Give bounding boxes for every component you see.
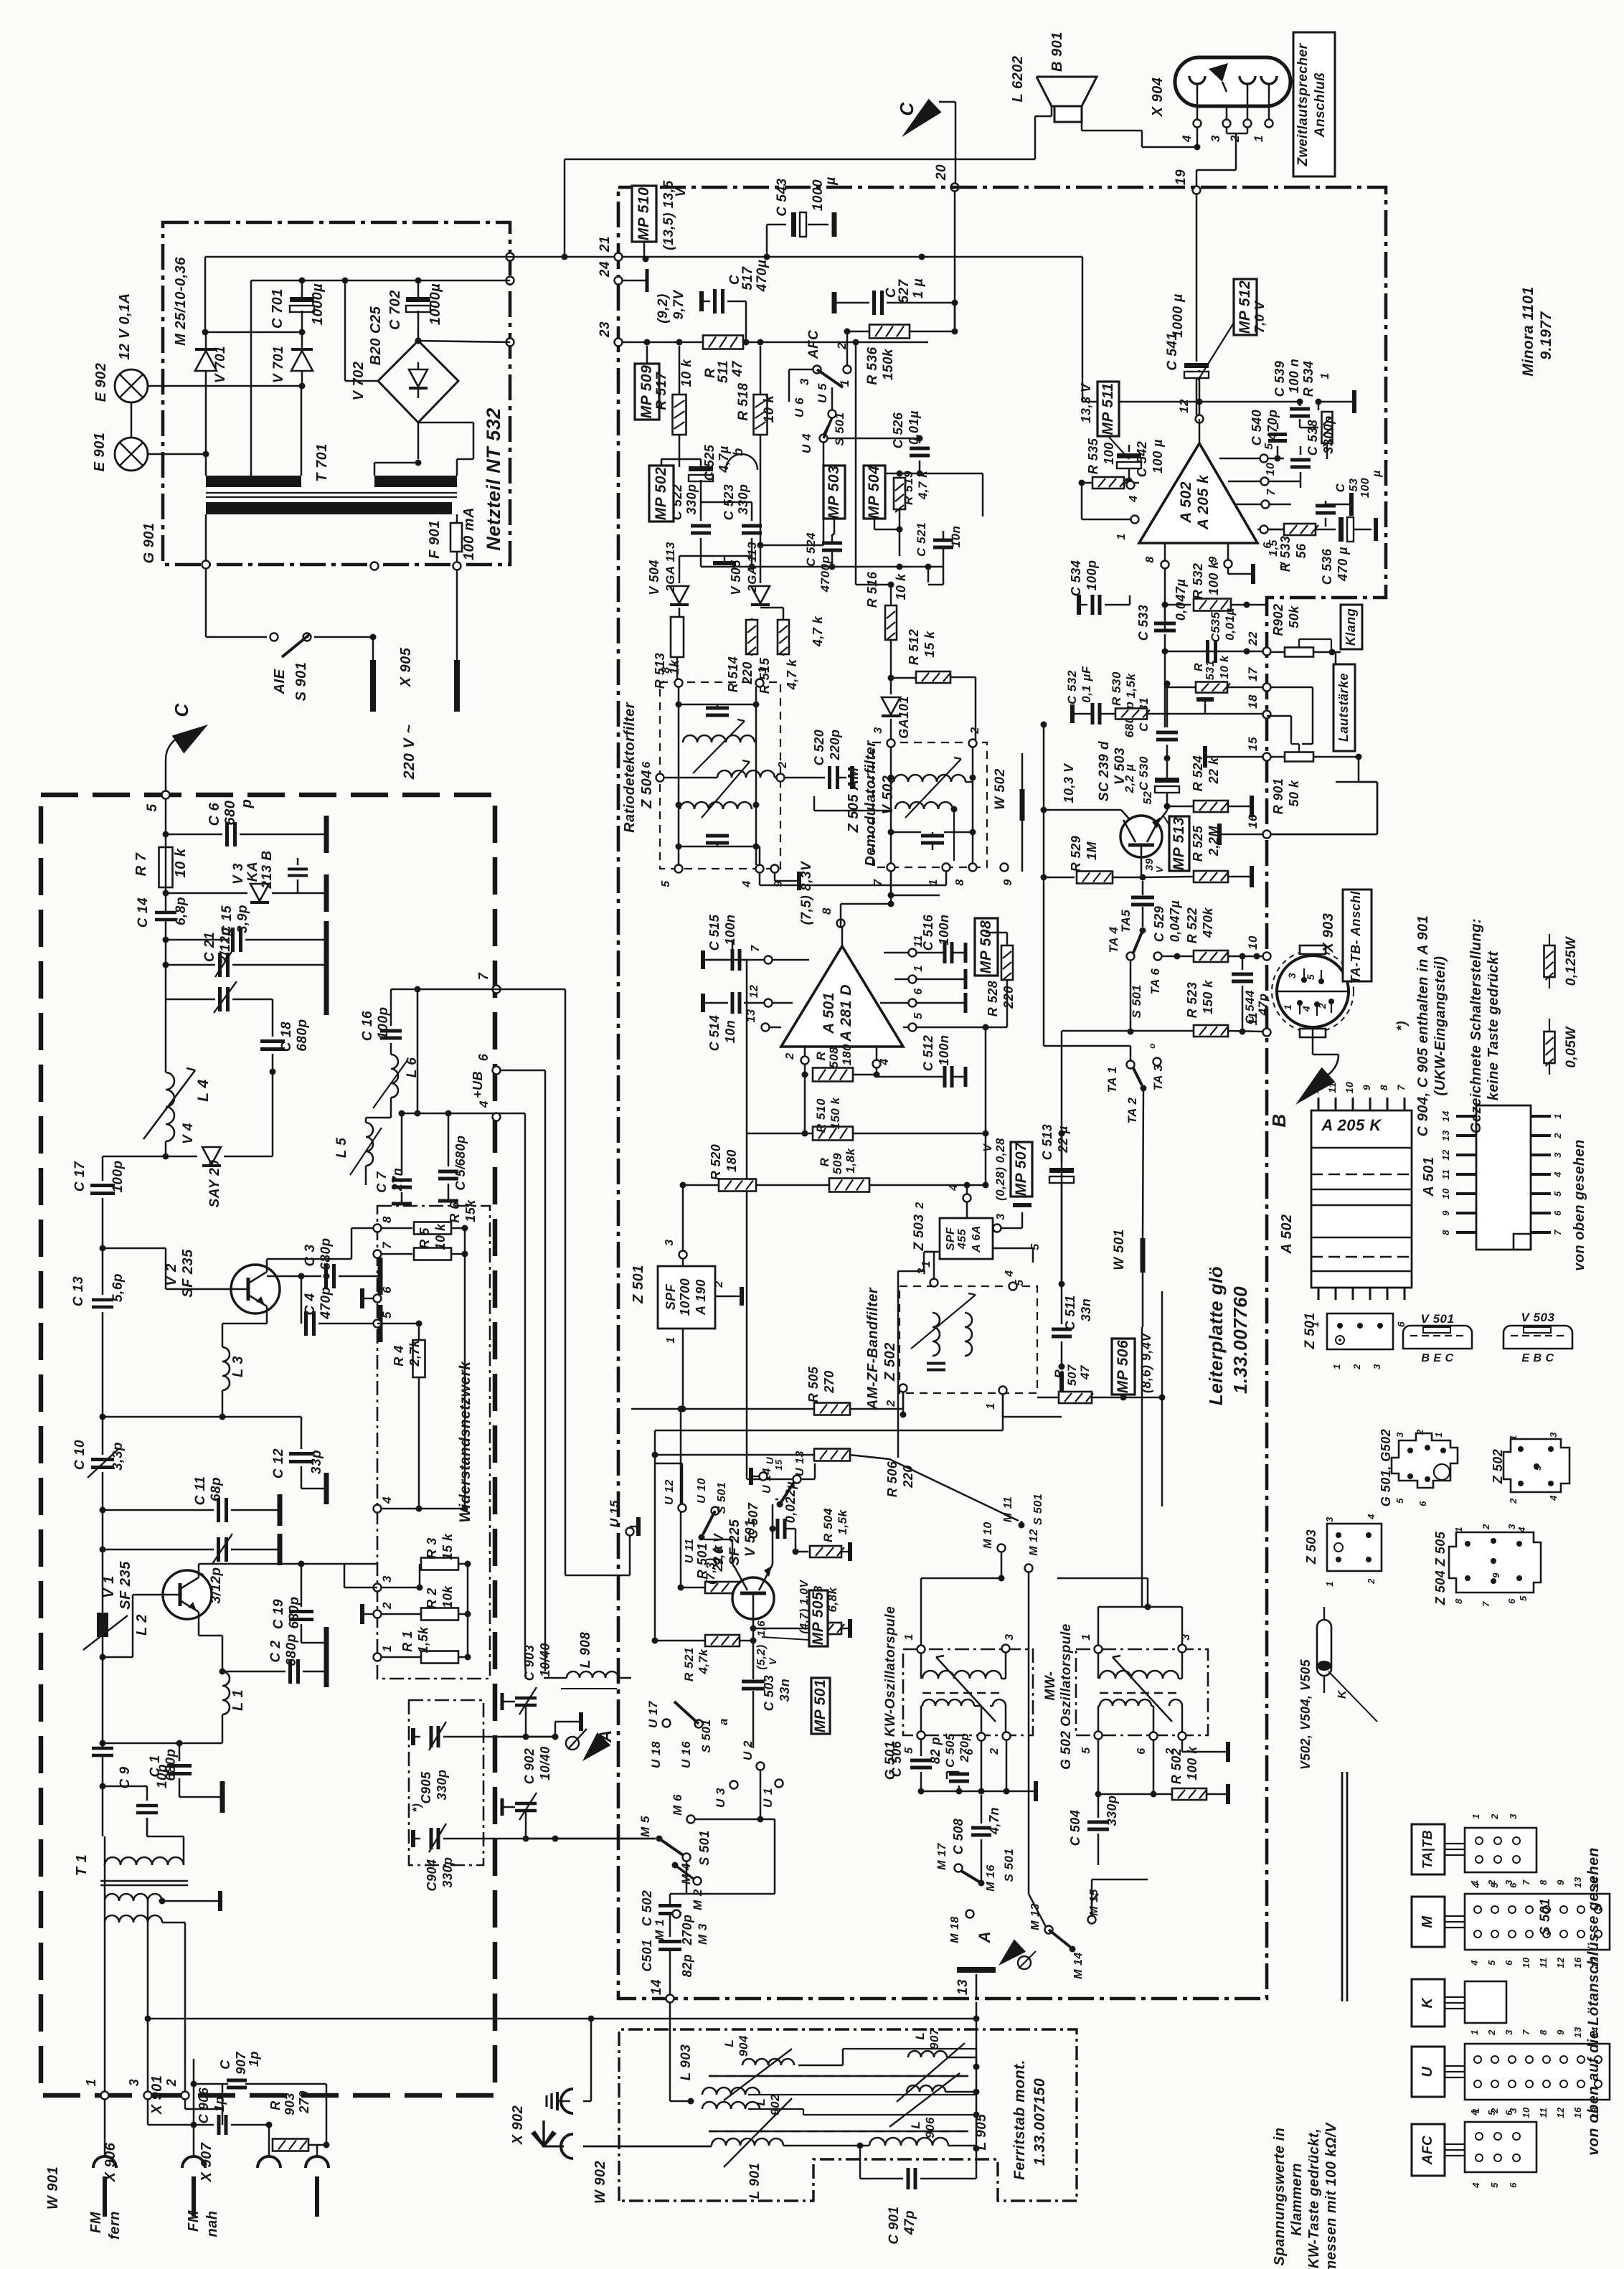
svg-text:SC 239 d: SC 239 d <box>1097 741 1112 801</box>
label S 501 TA <box>1130 985 1143 1019</box>
svg-text:10/40: 10/40 <box>538 1746 552 1780</box>
diode GA101 V502 <box>882 696 911 740</box>
wire to V2 base <box>102 1237 104 1295</box>
capacitor C535 0,01u <box>1208 608 1237 663</box>
label M 25/10-0,36 <box>173 257 189 346</box>
pin 10 node <box>1246 935 1271 960</box>
lamp E901 <box>115 438 148 471</box>
svg-text:1: 1 <box>1319 372 1331 379</box>
wire top rail vert from supply <box>562 159 568 260</box>
svg-text:1: 1 <box>84 2079 98 2087</box>
V50x pointer <box>1328 1671 1377 1722</box>
svg-text:1: 1 <box>1080 1633 1092 1640</box>
svg-text:2: 2 <box>988 1747 1001 1755</box>
wire X904 pin2-3 link <box>1227 127 1247 133</box>
wire T1 pin1 <box>104 1864 106 2092</box>
Z505 low cap <box>891 832 973 843</box>
svg-text:1: 1 <box>1331 1364 1342 1369</box>
svg-text:12: 12 <box>1309 1082 1321 1094</box>
label V702 <box>351 362 367 401</box>
svg-text:GA101: GA101 <box>897 696 911 739</box>
resistor R903 270 <box>266 2090 330 2151</box>
Ferritstab box <box>619 2029 1077 2201</box>
transistor V2 <box>164 1249 280 1313</box>
wire C10 down <box>100 1472 106 1514</box>
pin 20 node <box>951 184 959 192</box>
filter box Z504 <box>660 682 780 869</box>
G502 arrow <box>1113 1656 1172 1722</box>
A502 pin4 <box>1127 481 1141 503</box>
coil L2 tuned <box>83 1510 150 1650</box>
svg-text:L 3: L 3 <box>230 1356 246 1377</box>
wire G501 pin2 down <box>1006 1740 1008 1791</box>
label 10,3V <box>1062 763 1076 803</box>
svg-text:6: 6 <box>912 988 925 994</box>
svg-text:10: 10 <box>1265 463 1277 476</box>
svg-text:+UB: +UB <box>471 1071 485 1098</box>
svg-text:10: 10 <box>1521 2107 1531 2118</box>
svg-text:1000µ: 1000µ <box>428 283 443 326</box>
connector X903 <box>1272 945 1354 1037</box>
svg-text:C 21: C 21 <box>202 932 217 962</box>
wire pin23 rail <box>622 339 928 346</box>
svg-text:MP 510: MP 510 <box>636 187 652 241</box>
svg-text:R: R <box>814 1051 828 1060</box>
wire speaker right <box>1082 122 1197 147</box>
svg-text:3,9p: 3,9p <box>235 905 250 933</box>
svg-text:3: 3 <box>127 2079 141 2087</box>
filter box Z505 <box>873 742 987 867</box>
MP509 box <box>635 346 659 420</box>
svg-text:33n: 33n <box>778 1679 792 1702</box>
wire V1 base <box>103 1595 163 1657</box>
label V503 <box>1097 741 1154 805</box>
svg-text:2: 2 <box>380 1602 394 1610</box>
svg-text:9.1977: 9.1977 <box>1538 311 1554 360</box>
A502 pin9 <box>1207 543 1253 584</box>
label 220V~ <box>401 725 417 780</box>
V502 V504 V505 glass diode <box>1298 1607 1349 1770</box>
pin 17 node <box>1246 666 1271 691</box>
capacitor C502 270p <box>640 1890 694 1946</box>
svg-text:(7,3): (7,3) <box>704 1557 717 1584</box>
wire speaker elbow <box>1035 105 1052 159</box>
coil L902 label <box>754 2094 782 2115</box>
svg-text:470p: 470p <box>1265 409 1280 440</box>
svg-text:Ferritstab mont.: Ferritstab mont. <box>1011 2060 1028 2180</box>
svg-text:3: 3 <box>1286 973 1298 978</box>
svg-text:8: 8 <box>1440 1230 1451 1235</box>
svg-text:0,01µ: 0,01µ <box>907 410 921 445</box>
pin 4 node <box>374 1496 395 1513</box>
label X 903 <box>1321 913 1336 953</box>
coil L3 <box>222 1347 246 1390</box>
svg-text:C 4: C 4 <box>303 1293 318 1315</box>
wire R503 top <box>826 1563 828 1565</box>
svg-text:R 517: R 517 <box>654 371 669 410</box>
svg-text:5: 5 <box>1489 2182 1500 2188</box>
svg-text:8: 8 <box>954 879 966 885</box>
svg-text:C 502: C 502 <box>640 1890 654 1927</box>
svg-text:470µ: 470µ <box>755 260 770 293</box>
svg-text:1: 1 <box>1470 1813 1481 1819</box>
Z504 gnd <box>775 872 799 890</box>
svg-text:Gezeichnete Schalterstellung:: Gezeichnete Schalterstellung: <box>1468 918 1484 1133</box>
svg-text:MP 504: MP 504 <box>866 466 882 519</box>
svg-text:U 6: U 6 <box>793 397 806 418</box>
svg-text:B 901: B 901 <box>1049 32 1065 72</box>
svg-text:MP 505: MP 505 <box>810 1592 826 1646</box>
svg-text:V 3: V 3 <box>231 863 246 885</box>
label 12V 0,1A <box>117 293 133 359</box>
coil L906 <box>889 2073 976 2138</box>
wire MP506 down <box>1159 1395 1166 1507</box>
svg-text:U 12: U 12 <box>664 1479 676 1505</box>
X904 hook pin2 <box>1240 76 1255 92</box>
wire C515 rail top <box>707 940 732 960</box>
svg-text:A 190: A 190 <box>694 1279 708 1316</box>
svg-text:Z 504: Z 504 <box>639 770 655 809</box>
A501 pin5 <box>903 1012 1007 1032</box>
wire L2 down to V1 base <box>100 1637 106 1693</box>
svg-text:U: U <box>1420 2066 1435 2077</box>
svg-text:2: 2 <box>713 1280 725 1288</box>
AFC grid <box>1465 2108 1536 2189</box>
svg-text:330p: 330p <box>440 1857 455 1887</box>
MP503 box <box>823 466 845 534</box>
Z504 top coil <box>683 735 755 742</box>
svg-text:M 16: M 16 <box>985 1864 997 1892</box>
svg-text:*): *) <box>411 1803 423 1813</box>
resistor R516 10k <box>865 571 908 694</box>
svg-text:10 k: 10 k <box>433 1223 448 1250</box>
label B20 C25 <box>368 306 384 365</box>
svg-text:V 4: V 4 <box>181 1123 196 1144</box>
capacitor C17 <box>72 1160 126 1237</box>
svg-text:C: C <box>218 2060 232 2070</box>
wire Z505 out7 <box>888 871 940 899</box>
label C702 <box>387 290 403 330</box>
wire pin6 vert 760 <box>499 1070 545 1671</box>
label X 907 <box>199 2142 214 2182</box>
G502 lower coil <box>1098 1699 1182 1733</box>
MP512 box <box>1198 279 1257 380</box>
svg-text:455: 455 <box>956 1228 968 1250</box>
svg-text:3: 3 <box>995 1213 1007 1220</box>
svg-text:R 5: R 5 <box>417 1227 432 1249</box>
svg-text:19: 19 <box>1174 169 1189 185</box>
label 9,0V <box>704 1532 726 1584</box>
MP510 box <box>632 186 656 257</box>
svg-text:C 511: C 511 <box>1063 1295 1077 1330</box>
capacitor C542 100u <box>1117 439 1165 484</box>
wire V2 emitter <box>222 1306 267 1347</box>
G501 G502 pinout <box>1379 1429 1458 1507</box>
svg-text:W 901: W 901 <box>45 2166 61 2209</box>
svg-text:a: a <box>717 1718 730 1725</box>
label A502 pinout <box>1279 1214 1295 1254</box>
legend resistor 0,125W <box>1544 934 1580 989</box>
svg-text:S 501: S 501 <box>1032 1494 1044 1525</box>
arrow C top <box>902 99 955 137</box>
svg-text:C 7: C 7 <box>374 1171 389 1193</box>
wire V503 emitter <box>1157 803 1171 824</box>
svg-text:15 k: 15 k <box>922 631 937 658</box>
M link <box>1445 1916 1465 1928</box>
svg-text:3,3p: 3,3p <box>110 1442 126 1471</box>
svg-text:50 k: 50 k <box>1287 780 1301 807</box>
svg-text:4,7 k: 4,7 k <box>916 470 930 500</box>
svg-text:C: C <box>171 703 192 717</box>
IC A502 triangle <box>1139 443 1257 543</box>
capacitor C525 4,7u <box>679 444 745 502</box>
TA-TB box <box>1343 887 1372 984</box>
svg-text:R 3: R 3 <box>425 1537 439 1559</box>
svg-text:7: 7 <box>1395 1084 1407 1090</box>
X904 pin2 node <box>1244 92 1252 128</box>
label 13,5V <box>661 180 689 250</box>
svg-text:Z 503: Z 503 <box>912 1214 927 1251</box>
svg-text:15 k: 15 k <box>440 1533 455 1560</box>
svg-text:C 901: C 901 <box>887 2206 902 2244</box>
svg-text:330p: 330p <box>435 1769 449 1800</box>
trimmer C902 10/40 <box>502 1746 555 1841</box>
svg-text:C 18: C 18 <box>279 1022 294 1052</box>
capacitor C506 82p <box>889 1737 943 1795</box>
svg-text:L 4: L 4 <box>195 1079 212 1101</box>
G502 pin6 <box>1136 1732 1158 1755</box>
wire C526 bus <box>871 473 983 516</box>
svg-text:C 904, C 905 enthalten in A 90: C 904, C 905 enthalten in A 901 <box>1415 915 1431 1137</box>
arrow B right <box>1295 1055 1339 1105</box>
Z505 verts <box>888 747 976 864</box>
wire box to S901 <box>206 569 267 637</box>
resistor R519 4,7k <box>894 470 930 556</box>
wire M5 to left <box>555 1838 656 1840</box>
svg-text:2: 2 <box>1366 1578 1377 1585</box>
svg-text:24: 24 <box>598 261 613 278</box>
svg-text:L: L <box>722 2039 736 2047</box>
svg-text:C 526: C 526 <box>891 412 905 448</box>
svg-text:1: 1 <box>1115 533 1128 539</box>
svg-text:1: 1 <box>380 1645 394 1652</box>
svg-text:C 532: C 532 <box>1065 670 1079 704</box>
svg-text:5: 5 <box>912 1012 925 1019</box>
svg-text:13: 13 <box>1440 1130 1451 1141</box>
svg-text:C 13: C 13 <box>71 1276 86 1306</box>
TA|TB grid <box>1465 1813 1536 1889</box>
A502 pin1 <box>1082 483 1139 540</box>
FM pin 6 node <box>476 1053 501 1074</box>
contact U12 <box>655 1463 686 1512</box>
svg-text:1,5k: 1,5k <box>836 1509 849 1534</box>
contact M15 <box>1088 1889 1101 1924</box>
svg-text:C 539: C 539 <box>1273 361 1287 397</box>
svg-text:100p: 100p <box>376 1006 391 1039</box>
label C701 value <box>310 283 326 326</box>
svg-text:S 501: S 501 <box>1130 985 1143 1019</box>
svg-text:R 506: R 506 <box>885 1461 900 1497</box>
svg-text:A 281 D: A 281 D <box>838 984 854 1042</box>
transformer T1 core <box>100 1881 188 1885</box>
svg-text:C 538: C 538 <box>1306 420 1320 456</box>
box G502 <box>1076 1649 1208 1735</box>
label 1,0V <box>798 1580 811 1634</box>
K pad <box>1465 1981 1506 2023</box>
svg-text:5: 5 <box>1394 1498 1405 1504</box>
X904 pin1 node <box>1265 92 1273 128</box>
svg-text:2: 2 <box>914 1202 926 1209</box>
bridge rectifier V702 <box>378 338 458 423</box>
A501 pin2 <box>784 1047 809 1071</box>
wire U15 branch <box>499 989 638 1575</box>
wire pin12 rail <box>1082 257 1203 405</box>
svg-text:gemessen mit 100 kΩ/V: gemessen mit 100 kΩ/V <box>1323 2122 1339 2269</box>
svg-text:M 12: M 12 <box>1028 1529 1040 1556</box>
resistor R509 1,8k <box>683 1133 989 1192</box>
wire bridge bottom <box>417 423 420 459</box>
label 1,5V <box>1267 539 1289 569</box>
label T1 <box>74 1854 90 1876</box>
svg-text:1: 1 <box>1453 1527 1464 1532</box>
earth + hook X902 gnd <box>547 2016 595 2114</box>
arrow C left <box>166 725 208 795</box>
resistor R3 15k <box>381 1533 471 1590</box>
svg-text:1: 1 <box>927 879 940 885</box>
svg-text:C501: C501 <box>640 1939 654 1971</box>
resistor R523 150k <box>1062 980 1263 1037</box>
wire L904 <box>798 2049 843 2065</box>
labels M10-M12 <box>982 1494 1044 1572</box>
resistor R536 150k <box>844 325 958 385</box>
G501 upper coil <box>921 1652 1006 1679</box>
svg-text:100 k: 100 k <box>1185 1746 1199 1780</box>
svg-text:8: 8 <box>380 1216 394 1223</box>
switch TA1 TA2 <box>1044 1046 1147 1123</box>
svg-text:13: 13 <box>955 1979 971 1995</box>
svg-text:1: 1 <box>1469 1879 1480 1885</box>
svg-text:4700p: 4700p <box>818 556 832 593</box>
svg-text:V 1: V 1 <box>101 1575 117 1598</box>
Z502 pinout <box>1491 1432 1569 1504</box>
pin 14 label <box>649 1979 664 1995</box>
svg-text:R 512: R 512 <box>907 629 921 666</box>
wire T1 pin2 <box>162 1923 185 2092</box>
label G501 <box>883 1606 898 1780</box>
svg-text:(9,2): (9,2) <box>656 293 671 324</box>
Z501 pin2 <box>713 1280 742 1306</box>
wire V501 emitter <box>770 1504 776 1566</box>
svg-text:SAY 20: SAY 20 <box>207 1160 222 1208</box>
svg-text:Netzteil NT 532: Netzteil NT 532 <box>483 407 504 551</box>
svg-text:von oben auf die Lötanschlüsse: von oben auf die Lötanschlüsse gesehen <box>1585 1847 1602 2156</box>
svg-text:C 503: C 503 <box>762 1675 776 1712</box>
svg-text:100: 100 <box>1102 442 1116 465</box>
label von oben gesehen <box>1572 1139 1587 1271</box>
A501 DIP block <box>1440 1105 1563 1250</box>
Z504 top arrow <box>693 720 745 773</box>
svg-text:330p: 330p <box>1105 1795 1119 1826</box>
wire L901 to X902 <box>583 2146 869 2146</box>
label AIE <box>272 669 288 694</box>
capacitor C7 27n <box>374 1156 412 1204</box>
svg-text:9,7V: 9,7V <box>671 290 686 320</box>
svg-text:C 530: C 530 <box>1137 756 1151 791</box>
svg-text:B: B <box>1268 1113 1290 1127</box>
wire M12 down <box>1029 1572 1046 1927</box>
K link <box>1445 1997 1465 2009</box>
wire arrowC corner down <box>955 102 957 187</box>
wire U13 right <box>801 1463 815 1479</box>
wire bridge top to pin23 <box>415 338 511 344</box>
switch M13 M14 <box>1029 1903 1085 1979</box>
U link <box>1445 2066 1465 2077</box>
svg-text:TA 3: TA 3 <box>1151 1064 1165 1090</box>
svg-text:U 16: U 16 <box>679 1741 693 1768</box>
svg-text:270p: 270p <box>958 1733 971 1763</box>
main board border <box>618 187 1386 1999</box>
wire X904 to pin19 <box>1196 133 1236 187</box>
svg-text:SF 235: SF 235 <box>180 1249 196 1298</box>
svg-text:R 521: R 521 <box>682 1647 696 1681</box>
svg-text:1: 1 <box>1433 1432 1444 1438</box>
svg-text:UKW-Taste gedrückt,: UKW-Taste gedrückt, <box>1306 2128 1322 2269</box>
svg-text:R 4: R 4 <box>392 1345 406 1367</box>
resistor R514 220 <box>726 618 757 692</box>
box TA|TB <box>1412 1824 1445 1874</box>
wire sec1 left <box>205 454 207 476</box>
svg-text:V 701: V 701 <box>271 346 286 383</box>
pin 7 node <box>374 1241 395 1258</box>
Z504 mid coil <box>664 761 789 781</box>
G501 pin5 <box>903 1732 925 1754</box>
svg-text:1,8k: 1,8k <box>844 1147 857 1173</box>
coil L907 <box>897 2027 976 2102</box>
X904 hook pin1 <box>1261 76 1277 92</box>
svg-text:1: 1 <box>903 1633 915 1640</box>
svg-text:C 903: C 903 <box>522 1645 537 1681</box>
svg-text:C 523: C 523 <box>722 484 736 521</box>
svg-text:1M: 1M <box>1085 841 1099 860</box>
Z504 Z505 pinout <box>1433 1524 1541 1607</box>
wire pin15 in <box>1205 746 1263 768</box>
wire fm main vertical <box>163 798 169 1072</box>
capacitor C5 680p <box>438 1135 468 1201</box>
speaker B901 cone <box>1037 77 1097 106</box>
svg-text:AFC: AFC <box>1420 2136 1435 2166</box>
svg-text:12: 12 <box>748 985 760 999</box>
Z505 pin2 <box>969 727 982 747</box>
wire supply to C (long top rail) <box>510 159 1035 257</box>
capacitor C501 82p <box>640 1939 694 1995</box>
box M <box>1412 1897 1445 1947</box>
svg-text:3: 3 <box>1372 1364 1382 1369</box>
resistor R6 15k <box>381 1199 478 1235</box>
svg-text:E 901: E 901 <box>92 433 108 472</box>
svg-text:7: 7 <box>1265 489 1278 496</box>
capacitor C9 10p <box>100 1764 171 1836</box>
wire pin18 path <box>1267 716 1291 739</box>
wire V1 emitter <box>199 1612 226 1675</box>
svg-text:680p: 680p <box>295 1019 310 1051</box>
transformer T1 primary <box>105 1818 184 1865</box>
resistor R520 180 <box>709 1144 756 1192</box>
svg-text:R 502: R 502 <box>1169 1748 1184 1785</box>
label Minora 1101 <box>1520 286 1554 376</box>
G502 pin5 <box>1080 1732 1103 1754</box>
svg-text:4: 4 <box>1548 1495 1559 1501</box>
pin 11 node <box>1246 1012 1271 1037</box>
